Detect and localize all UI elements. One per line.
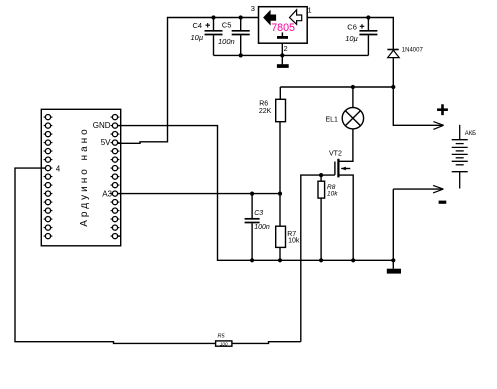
ground bottom right — [392, 260, 394, 268]
svg-text:EL1: EL1 — [326, 116, 339, 123]
pin 15 stub — [118, 235, 121, 237]
minus sign — [439, 201, 447, 204]
left pin nubs — [44, 117, 53, 236]
battery AKB — [452, 125, 476, 189]
Arduino nano box — [41, 109, 120, 246]
svg-text:A3: A3 — [102, 189, 112, 198]
right pin circles — [112, 115, 117, 239]
resistor R8 — [318, 175, 338, 262]
transistor VT2 (MOSFET) — [329, 151, 355, 263]
svg-text:C4: C4 — [193, 21, 203, 30]
svg-text:Ардуино нано: Ардуино нано — [79, 126, 90, 226]
svg-text:АКБ: АКБ — [465, 131, 476, 137]
svg-text:7805: 7805 — [271, 22, 295, 34]
diode VD 1N4007 — [387, 47, 423, 87]
svg-text:22K: 22K — [259, 108, 272, 115]
wire battery minus — [393, 189, 443, 260]
capacitor C6 — [345, 15, 377, 55]
wire 7805 pin 1 to top right corner — [307, 18, 393, 50]
wire bottom of top section — [214, 54, 369, 56]
svg-text:1N4007: 1N4007 — [402, 47, 424, 53]
svg-text:C3: C3 — [254, 210, 263, 217]
svg-text:C5: C5 — [222, 21, 232, 30]
wire +supply rail — [280, 86, 393, 88]
wire R5 to gate node — [232, 342, 301, 344]
svg-text:100n: 100n — [254, 224, 270, 231]
svg-text:1: 1 — [308, 6, 312, 15]
svg-text:4: 4 — [56, 164, 61, 173]
capacitor C5 — [218, 15, 250, 57]
svg-text:10k: 10k — [327, 190, 338, 197]
svg-text:100n: 100n — [218, 37, 235, 46]
lamp EL1 — [326, 87, 364, 161]
svg-text:10µ: 10µ — [191, 33, 204, 42]
svg-text:2: 2 — [284, 44, 288, 53]
wire battery plus — [393, 87, 443, 125]
left pin circles — [45, 115, 50, 239]
resistor R6 — [259, 87, 286, 226]
svg-text:10µ: 10µ — [345, 34, 358, 43]
capacitor C3 — [245, 194, 270, 263]
wire 7805 pin 2 — [281, 43, 283, 64]
svg-text:100: 100 — [220, 341, 228, 346]
svg-text:R5: R5 — [218, 334, 226, 340]
svg-text:R6: R6 — [259, 100, 268, 107]
svg-text:5V: 5V — [101, 138, 111, 147]
capacitor C4 — [191, 15, 223, 55]
regulator U1 7805 box — [259, 7, 308, 44]
wire GND pin to bottom rail — [118, 126, 394, 261]
resistor R5 — [216, 334, 232, 347]
black arrow inside 7805 — [263, 10, 276, 26]
svg-text:10k: 10k — [288, 238, 300, 245]
wire top-left loop: 5V pin to 7805 pin 3 — [118, 18, 259, 144]
wire A3 to divider — [118, 193, 280, 195]
7805 tab symbol — [281, 32, 283, 36]
svg-text:3: 3 — [251, 4, 255, 13]
wire gate node to R5 — [301, 175, 335, 342]
svg-text:C6: C6 — [347, 23, 357, 32]
resistor R7 — [276, 226, 300, 262]
right pin nubs — [111, 117, 120, 236]
svg-text:GND: GND — [93, 121, 111, 130]
wire pin 4 to R5 — [15, 168, 216, 343]
ground under 7805 — [277, 64, 289, 68]
white arrow inside 7805 — [290, 10, 302, 24]
svg-text:VT2: VT2 — [329, 151, 342, 158]
plus sign — [437, 104, 448, 115]
